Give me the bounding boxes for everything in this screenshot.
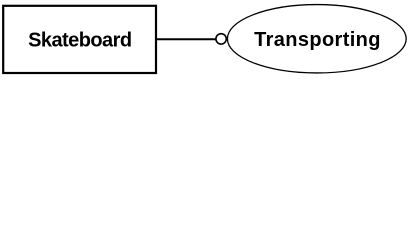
ellipse Transporting [227, 5, 406, 73]
svg-text:Transporting: Transporting [254, 29, 381, 51]
circle junction [216, 34, 226, 44]
rectangle block Skateboard [3, 6, 156, 73]
wire connector [156, 38, 216, 40]
svg-text:Skateboard: Skateboard [28, 30, 131, 52]
